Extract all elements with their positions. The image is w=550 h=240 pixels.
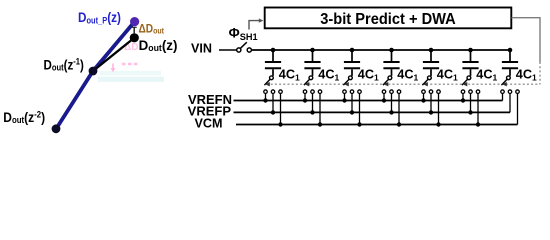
junction cap C2 top plate / VIN rail [310,48,315,53]
junction cap C4 top plate / VIN rail [389,48,394,53]
node throw contact S5 to VCM [437,90,441,125]
wire actual output segment (black) [93,38,134,71]
node throw contact S2 to VREFP [311,90,315,112]
block U1: 3-bit Predict + DWA [265,8,512,29]
node throw contact S6 to VREFN [461,90,465,101]
node throw contact S1 to VCM [279,90,283,125]
junction S4 throw on VREFN rail [382,98,386,102]
capacitor C2 value 4C1 [304,50,320,76]
switch SH1 (input sampling switch) [237,42,252,52]
node throw contact S7 to VREFP [508,90,512,112]
node throw contact S5 to VREFP [429,90,433,112]
svg-text:VIN: VIN [191,41,212,55]
node throw contact S2 to VREFN [303,90,307,101]
node Dout(z^-2) [52,124,61,133]
junction S5 throw on VREFP rail [429,110,433,114]
wire VIN top-plate rail [251,49,510,51]
node throw contact S6 to VCM [476,90,480,125]
switch bottom-plate selector S7 [501,76,510,87]
capacitor C3 value 4C1 [344,50,360,76]
capacitor C7 value 4C1 [502,50,518,76]
junction S4 throw on VCM rail [397,122,401,126]
node Dout(z^-1) [89,67,98,76]
node throw contact S7 to VREFN [501,90,505,101]
wire dashed switch-control bus [267,83,541,85]
junction S3 throw on VREFN rail [342,98,346,102]
capacitor C4 value 4C1 [383,50,399,76]
node throw contact S4 to VCM [397,90,401,125]
node Dout(z) actual point [130,33,139,42]
node throw contact S5 to VREFN [422,90,426,101]
node throw contact S4 to VREFP [390,90,394,112]
switch bottom-plate selector S4 [383,76,392,87]
junction S6 throw on VREFP rail [468,110,472,114]
switch bottom-plate selector S3 [343,76,352,87]
capacitor C5 value 4C1 [423,50,439,76]
node throw contact S3 to VCM [358,90,362,125]
junction cap C1 top plate / VIN rail [271,48,276,53]
arrow delta Dout (prediction error between points) [132,27,137,33]
capacitor C6 value 4C1 [462,50,478,76]
wire VREFP rail [234,111,511,113]
node throw contact S4 to VREFN [382,90,386,101]
junction S6 throw on VCM rail [476,122,480,126]
junction cap C6 top plate / VIN rail [468,48,473,53]
node throw contact S6 to VREFP [469,90,473,112]
wire VCM rail [236,124,518,126]
switch bottom-plate selector S1 [264,76,273,87]
junction S1 throw on VCM rail [278,122,282,126]
svg-text:VCM: VCM [195,117,223,131]
capacitor C1 value 4C1 [265,50,281,76]
node throw contact S2 to VCM [318,90,322,125]
junction cap C3 top plate / VIN rail [350,48,355,53]
node throw contact S1 to VREFP [271,90,275,112]
junction S3 throw on VREFP rail [350,110,354,114]
junction S2 throw on VREFN rail [303,98,307,102]
junction cap C7 top plate / VIN rail [508,48,513,53]
junction S1 throw on VREFP rail [271,110,275,114]
node throw contact S3 to VREFP [350,90,354,112]
svg-text:3-bit Predict + DWA: 3-bit Predict + DWA [320,11,456,28]
junction S2 throw on VCM rail [318,122,322,126]
wire predicted trajectory (blue extrapolation line) [56,22,135,129]
node Dout_P(z) predicted point [130,17,139,26]
junction S1 throw on VREFN rail [263,98,267,102]
junction S3 throw on VCM rail [357,122,361,126]
node throw contact S7 to VCM [516,90,520,125]
wire DWA output feedback to switch control bus [512,18,541,62]
wire VIN input lead [219,49,237,51]
junction S4 throw on VREFP rail [389,110,393,114]
node throw contact S1 to VREFN [264,90,268,101]
junction S5 throw on VREFN rail [421,98,425,102]
junction cap C5 top plate / VIN rail [429,48,434,53]
junction S6 throw on VREFN rail [461,98,465,102]
node throw contact S3 to VREFN [343,90,347,101]
switch bottom-plate selector S5 [422,76,431,87]
junction S2 throw on VREFP rail [310,110,314,114]
wire VREFN rail [234,100,503,102]
junction S5 throw on VCM rail [436,122,440,126]
wire Phi_SH1 clock to predict block (elbow arrow) [249,18,263,29]
switch bottom-plate selector S2 [304,76,313,87]
switch bottom-plate selector S6 [462,76,471,87]
